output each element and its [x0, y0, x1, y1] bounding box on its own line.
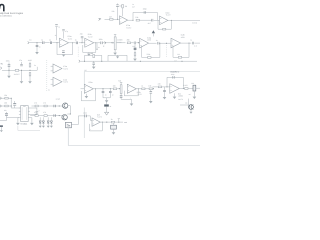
wire Q collector up	[67, 106, 70, 114]
ground C23	[112, 132, 116, 134]
op-amp IC2b	[85, 38, 94, 47]
svg-text:100R: 100R	[28, 59, 33, 62]
capacitor C3	[152, 19, 153, 22]
ground C15	[149, 101, 153, 103]
wire link a-b	[10, 98, 12, 108]
wire feedback top IC6	[167, 77, 183, 88]
wire IC6 out	[179, 88, 184, 90]
svg-text:2.5 (08/2021): 2.5 (08/2021)	[0, 15, 12, 18]
svg-text:50k: 50k	[118, 80, 121, 83]
svg-text:100p: 100p	[171, 73, 175, 76]
resistor R27	[44, 115, 47, 117]
svg-text:to b: to b	[194, 45, 197, 48]
power flag IC3	[152, 30, 155, 33]
capacitor C9	[192, 42, 193, 45]
resistor R18	[113, 88, 116, 90]
svg-text:vol: vol	[189, 93, 192, 96]
wire R11 to C7	[131, 42, 134, 44]
svg-text:100u: 100u	[6, 59, 10, 62]
wire IC5b out	[136, 88, 149, 90]
wire switch down long	[67, 128, 69, 146]
capacitor C11	[20, 65, 23, 66]
switch SW1 body	[66, 122, 72, 128]
ground D3	[105, 112, 109, 115]
svg-text:TL072: TL072	[63, 81, 68, 84]
wire ch2 in stub	[81, 88, 85, 90]
ground IC7 left	[16, 123, 20, 125]
svg-text:1k: 1k	[141, 84, 143, 87]
resistor R20	[158, 86, 161, 88]
ground C16	[163, 97, 167, 99]
svg-text:bs170: bs170	[178, 98, 182, 101]
wire feedback box IC1b	[158, 20, 171, 29]
wire R1 to node A	[113, 18, 120, 20]
junction IC2b out	[95, 42, 96, 43]
svg-text:1u: 1u	[75, 38, 77, 41]
capacitor C26 dark	[120, 96, 123, 97]
svg-text:TC1044: TC1044	[20, 122, 27, 125]
junction VB left	[84, 61, 85, 62]
junction R19 out	[153, 88, 154, 89]
ground mid block	[116, 56, 119, 58]
wire R20 to IC6	[162, 86, 170, 88]
capacitor C14	[109, 91, 112, 92]
wire C15 to ground	[150, 94, 152, 102]
wire C8 to node	[160, 42, 171, 44]
svg-text:100p: 100p	[143, 8, 147, 11]
svg-text:IC2a: IC2a	[68, 35, 72, 38]
wire R10 to IC2b	[79, 42, 85, 44]
wire output channel 1	[168, 19, 200, 21]
capacitor C19 dark	[5, 114, 8, 115]
logo (partial letterform)	[0, 5, 4, 12]
wire C18 up	[14, 101, 16, 104]
wire C11 up	[21, 62, 23, 65]
resistor R4	[136, 19, 139, 21]
junction bias stub	[97, 49, 98, 50]
svg-text:9v: 9v	[34, 64, 36, 67]
resistor R16 vertical	[29, 73, 31, 76]
junction C10	[9, 70, 10, 71]
connector VB tag	[79, 60, 80, 63]
op-amp IC3a	[140, 38, 149, 48]
wire feedback box IC5a	[81, 89, 95, 101]
svg-text:B2: B2	[85, 69, 87, 72]
svg-text:9V: 9V	[1, 63, 4, 66]
svg-text:47p: 47p	[80, 32, 83, 35]
wire vb2 stub top	[106, 101, 108, 105]
potentiometer GAIN body	[114, 37, 116, 50]
IC7 DIP body	[21, 106, 29, 122]
ground pot3	[193, 97, 197, 99]
wire R15 up	[29, 62, 31, 64]
wire C6 to tag	[103, 42, 107, 44]
wire C18 down	[14, 105, 16, 108]
svg-text:1M: 1M	[109, 15, 112, 18]
svg-text:TL072: TL072	[166, 14, 171, 17]
junction feedback left	[133, 20, 134, 21]
capacitor C1	[116, 5, 119, 6]
wire VB cap stub	[93, 61, 95, 63]
wire node A up to C1	[117, 7, 119, 19]
wire feedback box IC5b	[124, 89, 138, 96]
wire pot3 down	[193, 91, 195, 97]
wire C4 to ground	[36, 47, 38, 52]
ground IC7 right	[30, 123, 34, 125]
svg-text:g: g	[103, 45, 104, 47]
wire C31 down	[0, 127, 2, 130]
junction Q node	[70, 114, 71, 115]
junction IC5a out	[95, 88, 96, 89]
svg-text:+: +	[90, 129, 91, 131]
wire D2 to ground	[134, 50, 136, 53]
svg-text:1N5817: 1N5817	[14, 73, 20, 76]
svg-text:IC5a: IC5a	[89, 81, 93, 84]
wire C13 down	[102, 93, 104, 98]
ground power 1	[7, 76, 11, 78]
capacitor C20	[36, 112, 39, 113]
svg-text:1u: 1u	[190, 39, 192, 42]
op-amp IC8	[92, 118, 100, 126]
svg-text:TL072: TL072	[97, 115, 102, 118]
svg-text:47k: 47k	[43, 102, 46, 105]
wire R3 to op-amp	[122, 8, 124, 16]
wire C21 to IC8	[87, 116, 92, 120]
ground below R12	[133, 59, 137, 61]
junction IC1b out	[171, 20, 172, 21]
board2 top edge	[84, 71, 200, 73]
dashed link 2	[165, 45, 167, 57]
wire feedback box IC3a	[142, 43, 160, 57]
wire Q3 emitter	[190, 109, 192, 111]
resistor R1	[110, 18, 113, 20]
dashed separator	[46, 60, 48, 91]
dashed gang link	[77, 47, 79, 58]
potentiometer GAIN wiper arrow	[112, 42, 114, 43]
transistor Q2	[62, 115, 67, 120]
wire spare2 in+	[51, 79, 53, 81]
capacitor C7	[134, 42, 135, 45]
svg-text:1u: 1u	[58, 25, 60, 28]
wire C19 left link	[6, 118, 8, 121]
capacitor C27 top	[55, 25, 58, 26]
wire pot3 to Q3	[188, 99, 190, 105]
junction inverting in	[57, 42, 58, 43]
svg-text:TL072: TL072	[63, 67, 68, 70]
wire D3 to ground	[106, 107, 108, 113]
resistor R3 vertical	[122, 5, 124, 8]
connector tag G1	[105, 42, 106, 45]
wire to ground p1	[8, 70, 10, 76]
diode pair B d1	[47, 121, 49, 123]
junction link a	[11, 98, 12, 99]
wire C14 stub	[109, 89, 111, 91]
wire tag to pot	[107, 42, 115, 44]
wire C19 left	[0, 120, 7, 122]
wire C27 down	[56, 27, 58, 40]
ground IC5a	[85, 96, 89, 98]
ground below C4	[35, 52, 39, 54]
svg-text:10k: 10k	[113, 85, 116, 88]
capacitor Cin1	[43, 41, 44, 44]
svg-text:vb: vb	[98, 46, 100, 49]
svg-text:ally Dual Fuzz Engine: ally Dual Fuzz Engine	[0, 12, 24, 15]
wire pot top stub	[114, 35, 116, 37]
board2 left edge lower	[83, 108, 85, 139]
capacitor C10	[8, 65, 11, 66]
transistor Q1	[62, 103, 67, 108]
wire C16 stub	[164, 87, 166, 90]
ground feedback IC2a	[62, 54, 66, 56]
junction IC6 in	[167, 86, 168, 87]
svg-text:TL072: TL072	[126, 26, 131, 29]
svg-text:q1 q2: q1 q2	[56, 97, 60, 100]
potentiometer P2 body	[120, 85, 122, 94]
wire R4 to C3	[140, 19, 153, 21]
diode pair B d2	[50, 121, 52, 123]
wire IC7 cap right bottom	[30, 113, 37, 114]
wire C28 down	[63, 32, 65, 39]
wire IC5a out	[93, 88, 113, 90]
wire IC7 bottom route	[18, 126, 40, 131]
wire gnd stub IC6	[174, 93, 176, 96]
junction link b	[11, 106, 12, 107]
ground caps ch2	[105, 100, 109, 102]
wire spare2 in-	[51, 83, 53, 85]
wire IC2a out	[69, 42, 76, 44]
wire row2	[30, 115, 62, 117]
wire C23 to ground	[113, 129, 115, 132]
resistor R22	[5, 97, 8, 99]
svg-text:1n: 1n	[132, 3, 134, 6]
wire 9V rail	[2, 69, 37, 71]
svg-text:10k: 10k	[135, 16, 138, 19]
svg-text:1n: 1n	[105, 93, 107, 96]
wire caps join	[103, 97, 110, 99]
wire C5 to wire	[81, 38, 83, 43]
svg-text:47k: 47k	[34, 102, 37, 105]
svg-text:47p: 47p	[65, 30, 68, 33]
resistor R5 feedback	[163, 28, 166, 30]
svg-text:1u: 1u	[49, 38, 51, 41]
op-amp IC1a	[120, 16, 128, 25]
svg-text:LM386: LM386	[178, 95, 183, 98]
wire feedback loop top	[133, 12, 157, 20]
junction C11	[21, 70, 22, 71]
op-amp IC5b	[127, 84, 136, 93]
resistor R25	[44, 105, 47, 107]
capacitor C30	[76, 42, 77, 45]
wire op-amp out	[128, 19, 133, 21]
wire pot3 out	[196, 87, 200, 89]
junction IC3a in	[138, 42, 139, 43]
capacitor C4	[36, 45, 39, 46]
wire mid block gnd stub	[117, 55, 119, 56]
capacitor C16	[163, 90, 166, 91]
wire C1 top stub	[117, 3, 119, 5]
junction C8 right	[159, 43, 160, 44]
svg-text:10k: 10k	[148, 84, 151, 87]
junction pot top node	[82, 42, 83, 43]
wire mid block	[108, 55, 127, 61]
resistor R24	[35, 105, 38, 107]
wire diode stub	[134, 44, 136, 47]
capacitor C23 electrolytic	[111, 125, 117, 129]
wire rail end tick	[36, 67, 38, 71]
wire feedback box IC2a	[57, 43, 73, 55]
transistor Q3	[189, 105, 194, 110]
svg-text:47k: 47k	[43, 111, 46, 114]
wire feedback box IC2b	[83, 43, 96, 53]
wire spare1 in+	[51, 65, 53, 67]
ground pot GAIN	[113, 53, 117, 55]
wire C13 stub	[102, 89, 104, 91]
capacitor C2 feedback	[144, 11, 145, 14]
node A junction	[117, 19, 118, 20]
svg-text:+: +	[39, 109, 40, 112]
wire C15 stub	[150, 90, 152, 92]
junction VB right	[101, 61, 102, 62]
ground diode B1	[47, 126, 50, 128]
connector DC	[0, 67, 1, 70]
capacitor C13	[102, 91, 105, 92]
wire pot bottom	[114, 50, 116, 53]
capacitor C17 feedback	[173, 76, 174, 79]
pot2 top tick	[120, 82, 122, 84]
svg-text:22k: 22k	[112, 10, 115, 13]
wire ground stub IC2b	[88, 52, 90, 53]
junction IC8 out	[102, 122, 103, 123]
svg-text:10k: 10k	[4, 102, 7, 105]
capacitor C24	[54, 105, 55, 108]
capacitor C25	[54, 114, 55, 117]
wire C23 stub	[113, 123, 115, 125]
resistor R14 feedback	[178, 56, 181, 58]
ground pot2	[130, 104, 134, 106]
wire caps to ground	[106, 98, 108, 101]
wire bottom long	[68, 145, 200, 147]
junction pot wiper	[112, 42, 113, 43]
op-amp IC1b	[160, 16, 168, 25]
wire switch to C21	[71, 116, 84, 125]
svg-text:out: out	[124, 121, 127, 124]
wire R28 right	[115, 121, 123, 123]
svg-text:39k: 39k	[127, 39, 130, 42]
wire IC7 gnd right stub	[31, 118, 33, 123]
junction C22	[106, 122, 107, 123]
ground IC6	[173, 97, 177, 99]
svg-text:4u7: 4u7	[148, 22, 151, 25]
wire to C4	[36, 43, 38, 45]
wire Q3 rail	[180, 104, 189, 106]
connector ch2 in a	[0, 97, 1, 99]
IC7 right pins	[28, 108, 30, 118]
wire IC8 out	[100, 121, 111, 123]
wire gnd stub IC5a	[85, 94, 87, 96]
board2 left edge upper	[83, 72, 85, 89]
op-amp IC3b	[171, 38, 181, 48]
ground diode A2	[42, 126, 45, 128]
wire R21 to pot3	[188, 88, 193, 90]
IC7 left pins	[19, 108, 21, 118]
wire VB rail	[80, 60, 197, 62]
capacitor Cin2	[50, 41, 51, 44]
capacitor C12	[92, 63, 95, 64]
pot top tick	[114, 34, 116, 36]
zener D3 dark	[104, 104, 109, 106]
wire ch2 in b	[0, 105, 11, 107]
svg-text:1M: 1M	[125, 5, 128, 8]
wire R18 to pot2	[117, 88, 120, 90]
wire C16 to ground	[164, 92, 166, 97]
resistor R15 vertical	[29, 64, 31, 67]
capacitor C29 feedback dark	[62, 51, 65, 52]
ground diode A1	[39, 126, 42, 128]
svg-text:1k: 1k	[55, 34, 57, 37]
junction VB right2	[182, 61, 183, 62]
ground C31	[0, 130, 3, 132]
wire feedback box IC3b	[173, 43, 189, 57]
wire IC3b out	[181, 42, 192, 44]
svg-text:to brd: to brd	[192, 21, 197, 24]
svg-text:22k: 22k	[158, 83, 161, 86]
wire pot to R11	[116, 42, 125, 44]
diode D1	[15, 69, 19, 71]
wire IC3a out	[149, 42, 157, 44]
resistor R13 feedback	[148, 57, 151, 59]
wire ch2 in a	[0, 97, 11, 99]
wire C3 to IC1b	[154, 19, 160, 21]
svg-text:47u: 47u	[19, 59, 22, 62]
wire pin to gnd left	[18, 117, 19, 119]
wire C19 stub up	[6, 112, 8, 114]
ground Q3	[190, 112, 193, 114]
svg-text:vb: vb	[110, 105, 112, 108]
capacitor C18 dark	[13, 104, 16, 105]
svg-text:10k: 10k	[4, 94, 7, 97]
svg-text:100n: 100n	[99, 38, 103, 41]
input connector	[99, 18, 100, 21]
wire C10 up	[8, 63, 10, 65]
wire link to DIP	[11, 107, 20, 109]
junction C14	[110, 88, 111, 89]
potentiometer P3 VOL body	[193, 85, 196, 91]
junction VB mid	[140, 61, 141, 62]
svg-text:1n: 1n	[39, 45, 41, 48]
junction row2	[59, 115, 60, 116]
capacitor C5 above	[81, 36, 84, 37]
wire IC7 cap right top	[30, 108, 37, 111]
wire C7 to IC3a	[136, 42, 139, 44]
resistor R28	[111, 121, 114, 123]
svg-text:4558: 4558	[181, 36, 185, 39]
resistor R11	[127, 42, 130, 44]
wire IN to R1	[105, 18, 110, 20]
junction out node	[118, 122, 119, 123]
junction tick out	[118, 119, 120, 122]
junction IC5b out	[138, 88, 139, 89]
resistor R19	[149, 88, 152, 90]
resistor R17 vertical	[93, 54, 95, 57]
op-amp IC2a	[60, 38, 69, 47]
ground diode B2	[50, 126, 53, 128]
svg-text:nc: nc	[48, 90, 50, 92]
resistor R19a	[142, 88, 145, 90]
wire pot2 to ground	[121, 97, 131, 103]
resistor R12 vertical	[134, 53, 136, 56]
capacitor C8	[158, 42, 159, 45]
svg-text:10k: 10k	[191, 82, 194, 85]
